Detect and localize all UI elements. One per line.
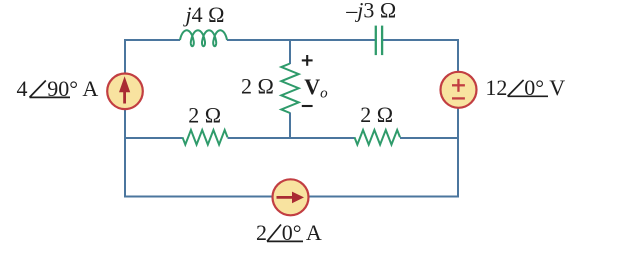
svg-text:4: 4 [17, 76, 28, 101]
svg-text:2 Ω: 2 Ω [241, 73, 274, 98]
svg-text:–j3 Ω: –j3 Ω [345, 0, 396, 23]
svg-text:0° A: 0° A [282, 220, 322, 245]
svg-text:2 Ω: 2 Ω [188, 103, 221, 128]
svg-text:j4 Ω: j4 Ω [183, 2, 225, 27]
svg-text:2: 2 [256, 220, 267, 245]
svg-text:0° V: 0° V [524, 75, 565, 100]
svg-text:90° A: 90° A [47, 76, 98, 101]
svg-text:12: 12 [485, 75, 507, 100]
svg-text:2 Ω: 2 Ω [360, 102, 393, 127]
